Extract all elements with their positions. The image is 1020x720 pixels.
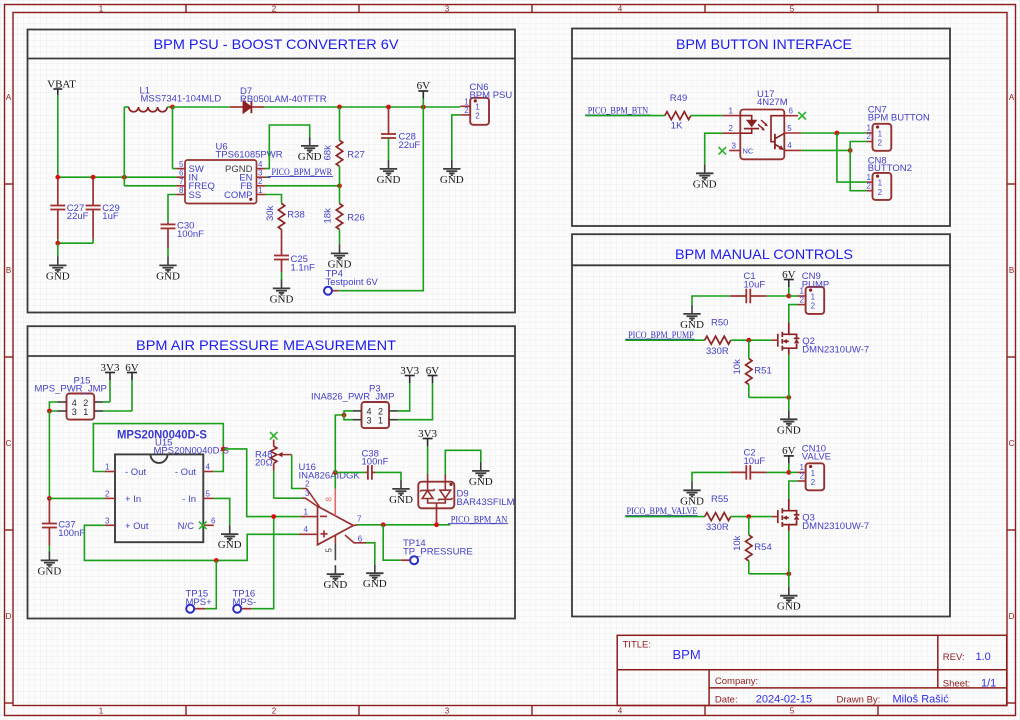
- svg-text:330R: 330R: [706, 346, 729, 357]
- ground pin5: [323, 565, 347, 591]
- svg-text:Date:: Date:: [715, 694, 738, 705]
- svg-text:5: 5: [790, 707, 795, 716]
- capacitor C30 100nF: [161, 221, 205, 257]
- wire +Out bottom rail: [84, 525, 299, 560]
- svg-text:22uF: 22uF: [399, 140, 421, 151]
- wire R51 to source node: [749, 396, 789, 398]
- svg-text:R54: R54: [754, 542, 771, 553]
- node R27 top: [337, 105, 342, 110]
- power flag 3V3 (P3): [400, 365, 419, 383]
- wire label to R49: [585, 115, 665, 117]
- ground C28: [377, 160, 401, 186]
- capacitor C28 22uF: [381, 107, 420, 160]
- pin 5 (ref): [334, 536, 336, 544]
- svg-text:10uF: 10uF: [744, 280, 766, 291]
- power flag 6V (pump): [782, 269, 796, 296]
- svg-text:4: 4: [618, 5, 623, 14]
- svg-text:BUTTON2: BUTTON2: [868, 163, 912, 174]
- wire C27-C29 bottom: [58, 242, 93, 244]
- wire P15 pin2 to 3V3: [103, 401, 110, 403]
- wire CN10 pin2 to drain: [789, 481, 798, 499]
- inductor L1: [124, 86, 221, 112]
- svg-text:RB050LAM-40TFTR: RB050LAM-40TFTR: [240, 94, 327, 105]
- node gate/R51: [746, 338, 751, 343]
- svg-text:- In: - In: [182, 494, 196, 505]
- ground C37: [37, 552, 61, 578]
- svg-text:BPM MANUAL CONTROLS: BPM MANUAL CONTROLS: [675, 246, 853, 262]
- ground C30: [156, 257, 180, 283]
- svg-text:PUMP: PUMP: [802, 279, 829, 290]
- svg-text:1: 1: [83, 407, 88, 417]
- svg-text:R50: R50: [711, 318, 728, 329]
- svg-text:C: C: [6, 439, 12, 448]
- svg-text:TITLE:: TITLE:: [623, 640, 652, 651]
- svg-text:7: 7: [179, 177, 184, 186]
- svg-text:3: 3: [367, 416, 372, 426]
- wire CN6 pin2 to gnd: [452, 115, 470, 160]
- wire -Out to op-amp pin1: [223, 449, 300, 517]
- phototransistor inside U17: [771, 116, 784, 150]
- section box MANUAL: [572, 234, 950, 616]
- node C29: [91, 175, 96, 180]
- svg-text:8: 8: [325, 497, 334, 502]
- wire output: [358, 524, 451, 526]
- wire source down: [788, 355, 790, 398]
- wire SS to C30: [168, 195, 177, 222]
- node source/gnd: [786, 395, 791, 400]
- svg-text:BPM BUTTON: BPM BUTTON: [868, 112, 930, 123]
- node C28 top: [386, 105, 391, 110]
- svg-text:3: 3: [732, 141, 737, 150]
- power flag 6V (P3): [426, 365, 440, 383]
- svg-text:10k: 10k: [732, 359, 743, 375]
- svg-text:TPS61085PWR: TPS61085PWR: [216, 150, 283, 161]
- svg-text:Drawn By:: Drawn By:: [837, 694, 881, 705]
- svg-text:VALVE: VALVE: [802, 452, 831, 463]
- svg-text:Testpoint 6V: Testpoint 6V: [326, 277, 379, 288]
- svg-text:4: 4: [206, 463, 211, 472]
- pin 6 stub: [345, 535, 366, 543]
- ground CN6: [440, 160, 464, 186]
- svg-text:18k: 18k: [323, 208, 334, 224]
- wire COMP to R38: [265, 195, 282, 204]
- wire 6V to TP4: [339, 107, 424, 291]
- node VBAT/C27: [55, 175, 60, 180]
- node pin8/C38: [333, 470, 338, 475]
- wire L1 to D7: [173, 106, 230, 108]
- no-connect X pin6 U17: [798, 112, 806, 120]
- svg-text:6: 6: [211, 516, 216, 525]
- jumper P15 MPS_PWR_JMP: [35, 376, 107, 420]
- wire L1 left riser to FREQ: [123, 107, 125, 186]
- wire pin4 to node: [801, 149, 850, 151]
- svg-text:3: 3: [305, 489, 310, 498]
- svg-text:R49: R49: [670, 93, 687, 104]
- svg-text:D: D: [6, 612, 12, 621]
- svg-text:5: 5: [206, 489, 211, 498]
- svg-text:1: 1: [878, 129, 883, 138]
- svg-text:C: C: [1009, 439, 1015, 448]
- svg-text:DMN2310UW-7: DMN2310UW-7: [802, 345, 869, 356]
- svg-text:6: 6: [789, 107, 794, 116]
- wire to CN9 pin1: [789, 295, 798, 297]
- node 6V/C1/CN9: [786, 294, 791, 299]
- testpoint TP14 TP_PRESSURE: [401, 538, 473, 564]
- node P15: [47, 409, 52, 414]
- svg-text:2: 2: [272, 707, 277, 716]
- capacitor C29: [86, 178, 120, 243]
- IC U6 TPS61085PWR: [177, 142, 283, 204]
- capacitor C1 10uF: [730, 271, 789, 303]
- wire label to R55: [625, 516, 704, 518]
- capacitor C38 100nF: [335, 448, 388, 479]
- wire to CN10 pin1: [789, 471, 798, 473]
- ground PGND: [298, 137, 322, 163]
- svg-text:3: 3: [445, 5, 450, 14]
- svg-text:1: 1: [811, 469, 816, 478]
- svg-text:- Out: - Out: [175, 467, 196, 478]
- svg-text:5: 5: [787, 124, 792, 133]
- wire CN7 pin2 riser CN8 pin2: [850, 142, 867, 191]
- svg-text:1/1: 1/1: [981, 678, 996, 690]
- wire P15 down to C37: [48, 411, 50, 498]
- trimmer R48 20R: [255, 432, 292, 498]
- svg-text:TP_PRESSURE: TP_PRESSURE: [403, 547, 473, 558]
- resistor R51 10k: [732, 340, 772, 397]
- svg-text:Sheet:: Sheet:: [943, 679, 970, 690]
- transistor Q2 DMN2310UW-7: [772, 323, 869, 356]
- wire U17 pin2 to gnd: [705, 133, 723, 164]
- svg-text:3: 3: [105, 516, 110, 525]
- svg-text:1: 1: [105, 463, 110, 472]
- svg-text:A: A: [6, 93, 12, 102]
- ground C2: [680, 472, 730, 507]
- svg-text:R51: R51: [754, 366, 771, 377]
- svg-text:2: 2: [305, 479, 310, 488]
- svg-text:BPM PSU: BPM PSU: [470, 90, 513, 101]
- wire node to gnd valve: [788, 574, 790, 587]
- svg-text:2: 2: [811, 478, 816, 487]
- svg-text:3: 3: [445, 707, 450, 716]
- svg-text:2: 2: [272, 5, 277, 14]
- svg-text:INA826_PWR_JMP: INA826_PWR_JMP: [311, 392, 394, 403]
- svg-text:5: 5: [325, 548, 334, 553]
- wire pin8 up: [334, 472, 336, 488]
- node 6V tap: [421, 105, 426, 110]
- wire to TP14: [383, 525, 401, 560]
- connector CN10 VALVE: [798, 444, 832, 491]
- svg-text:2: 2: [800, 472, 805, 481]
- svg-text:30k: 30k: [265, 205, 276, 221]
- svg-text:10uF: 10uF: [744, 456, 766, 467]
- node source/gnd valve: [786, 571, 791, 576]
- node TP15: [214, 558, 219, 563]
- wire R38 to C25: [281, 230, 283, 256]
- wire node to gnd: [788, 397, 790, 410]
- pin 8 (V+): [334, 489, 336, 516]
- wire R49 to U17: [691, 115, 723, 117]
- svg-text:R27: R27: [347, 150, 364, 161]
- svg-text:2: 2: [464, 106, 469, 115]
- svg-text:BPM AIR PRESSURE MEASUREMENT: BPM AIR PRESSURE MEASUREMENT: [136, 337, 396, 353]
- wire riser to CN8 pin1: [837, 133, 867, 182]
- transistor Q3 DMN2310UW-7: [772, 499, 869, 532]
- wire R48 bottom to pin3: [274, 497, 302, 499]
- wire D9 right to gnd: [445, 450, 481, 474]
- net label PICO_BPM_PWR: [265, 168, 333, 178]
- LED inside U17: [740, 116, 768, 134]
- svg-text:1: 1: [99, 707, 104, 716]
- node 6V/C2/CN10: [786, 470, 791, 475]
- capacitor C25 1.1nF: [274, 254, 315, 280]
- node pin4/CN7-2/CN8-2: [848, 148, 853, 153]
- net label PICO_BPM_VALVE: [625, 507, 697, 517]
- resistor R49 1K: [665, 93, 691, 131]
- svg-text:BPM BUTTON INTERFACE: BPM BUTTON INTERFACE: [676, 36, 852, 52]
- svg-text:2: 2: [878, 188, 883, 197]
- svg-text:1: 1: [811, 293, 816, 302]
- svg-text:68k: 68k: [323, 145, 334, 161]
- node output/D9: [434, 522, 439, 527]
- svg-text:R38: R38: [287, 210, 304, 221]
- svg-text:MSS7341-104MLD: MSS7341-104MLD: [141, 94, 222, 105]
- ground R26: [328, 245, 352, 271]
- optocoupler U17 4N27M: [719, 89, 806, 159]
- node C27 gnd: [55, 241, 60, 246]
- svg-text:2: 2: [475, 111, 480, 120]
- ground Q2: [777, 410, 801, 436]
- wire FB: [265, 185, 340, 187]
- svg-text:B: B: [1009, 266, 1014, 275]
- svg-text:R55: R55: [711, 494, 728, 505]
- jumper P3 INA826_PWR_JMP: [311, 384, 398, 429]
- connector CN8 BUTTON2: [867, 155, 912, 200]
- svg-text:7: 7: [357, 515, 362, 524]
- svg-text:1uF: 1uF: [102, 211, 119, 222]
- wire P3 left pins: [344, 411, 353, 420]
- net label PICO_BPM_BTN: [585, 107, 651, 117]
- wire C38 to gnd: [375, 472, 401, 480]
- op-amp U16 INA826AIDGK: [299, 462, 367, 560]
- svg-text:NC: NC: [743, 146, 754, 155]
- testpoint TP4: [324, 269, 378, 295]
- wire to CN6: [460, 105, 470, 107]
- diode D7: [230, 86, 327, 113]
- section box AIR: [28, 326, 516, 618]
- svg-text:1: 1: [99, 5, 104, 14]
- pin 7 output stub: [353, 524, 357, 527]
- svg-text:3: 3: [72, 407, 77, 417]
- testpoint TP15 MPS+: [186, 560, 217, 612]
- svg-text:2: 2: [800, 295, 805, 304]
- svg-text:2: 2: [105, 489, 110, 498]
- svg-text:SS: SS: [189, 190, 202, 201]
- ground U17: [693, 164, 717, 190]
- wire CN9 pin2 to drain: [789, 305, 798, 323]
- capacitor C2 10uF: [730, 448, 789, 480]
- svg-text:MPS-: MPS-: [233, 597, 257, 608]
- svg-text:1: 1: [878, 179, 883, 188]
- capacitor C27: [50, 178, 88, 243]
- wire pin6 down to gnd: [366, 543, 375, 565]
- section box BUTTON: [572, 29, 950, 227]
- svg-text:20Ω: 20Ω: [255, 458, 273, 469]
- wire P3 pin1 to 6V: [398, 383, 433, 420]
- svg-text:A: A: [1009, 93, 1015, 102]
- svg-text:BPM PSU - BOOST CONVERTER 6V: BPM PSU - BOOST CONVERTER 6V: [154, 36, 400, 52]
- ground C27: [46, 257, 70, 283]
- wire pin5 to CN7 pin1: [801, 132, 867, 134]
- ground C1: [680, 296, 730, 331]
- svg-text:Miloš Rašić: Miloš Rašić: [893, 693, 950, 705]
- node -Out branch: [221, 447, 226, 452]
- node L1/FREQ: [122, 175, 127, 180]
- node output/TP14: [381, 522, 386, 527]
- svg-text:BPM: BPM: [673, 647, 701, 662]
- wire R54 to source node: [749, 573, 789, 575]
- svg-text:1.1nF: 1.1nF: [291, 263, 315, 274]
- svg-text:1.0: 1.0: [976, 651, 991, 663]
- wire VBAT down: [57, 95, 59, 177]
- svg-text:4N27M: 4N27M: [757, 97, 788, 108]
- node gate/R54: [746, 514, 751, 519]
- node P3 join: [342, 413, 347, 418]
- svg-text:COMP: COMP: [224, 190, 253, 201]
- connector CN6 BPM PSU: [464, 82, 512, 125]
- title block: [617, 635, 1007, 705]
- svg-text:10k: 10k: [732, 535, 743, 551]
- wire R55 to gate: [731, 516, 772, 518]
- power flag 6V (valve): [782, 445, 796, 472]
- resistor R50 330R: [705, 318, 731, 357]
- svg-text:2: 2: [258, 177, 263, 186]
- svg-text:N/C: N/C: [178, 521, 195, 532]
- svg-text:B: B: [6, 266, 11, 275]
- svg-text:100nF: 100nF: [362, 457, 389, 468]
- svg-text:Company:: Company:: [715, 676, 758, 687]
- svg-text:2: 2: [867, 132, 872, 141]
- power flag VBAT: [47, 79, 76, 96]
- power flag 3V3 (P15): [101, 362, 120, 402]
- wire PGND to gnd: [265, 125, 310, 169]
- svg-text:2: 2: [729, 124, 734, 133]
- svg-text:4: 4: [618, 707, 623, 716]
- wire P15 left pins join: [49, 402, 57, 411]
- wire label to R50: [625, 339, 704, 341]
- wire P3 pin2 to 3V3: [398, 383, 410, 411]
- connector CN9 PUMP: [798, 271, 830, 314]
- svg-text:BAR43SFILM: BAR43SFILM: [457, 497, 515, 508]
- svg-text:MPS+: MPS+: [186, 597, 213, 608]
- node pin5/CN8 riser: [835, 131, 840, 136]
- diode D9 BAR43SFILM: [418, 474, 514, 525]
- node -IN/TP16/R48: [271, 514, 276, 519]
- svg-text:100nF: 100nF: [58, 528, 85, 539]
- ground C25: [270, 280, 294, 306]
- wire source down valve: [788, 531, 790, 574]
- ground Q3: [777, 587, 801, 613]
- svg-text:4: 4: [304, 525, 309, 534]
- ground pin6: [363, 564, 387, 590]
- no-connect X pin6: [199, 522, 207, 530]
- net label PICO_BPM_PUMP: [625, 331, 694, 341]
- svg-text:- Out: - Out: [125, 467, 146, 478]
- svg-text:330R: 330R: [706, 522, 729, 533]
- svg-text:MPS20N0040D-S: MPS20N0040D-S: [154, 445, 230, 456]
- wire R50 to gate: [731, 339, 772, 341]
- power flag 6V (P15): [125, 362, 139, 411]
- svg-text:2: 2: [811, 302, 816, 311]
- resistor R54 10k: [732, 517, 772, 574]
- testpoint TP16 MPS-: [233, 517, 274, 613]
- svg-text:2024-02-15: 2024-02-15: [756, 693, 812, 705]
- wire P15 pin1 to 6V: [103, 410, 132, 412]
- node L1/D7 SW: [170, 105, 175, 110]
- svg-text:2: 2: [867, 181, 872, 190]
- ground pin5 U15: [218, 525, 242, 551]
- svg-text:8: 8: [179, 186, 184, 195]
- ground C38: [389, 480, 413, 506]
- svg-text:22uF: 22uF: [67, 211, 89, 222]
- wire 6V rail: [264, 106, 460, 108]
- svg-text:1: 1: [729, 106, 734, 115]
- resistor R26 18k: [323, 186, 365, 245]
- svg-text:5: 5: [790, 5, 795, 14]
- wire R48 wiper to pin2: [292, 455, 302, 489]
- svg-text:REV:: REV:: [943, 652, 965, 663]
- svg-text:1: 1: [304, 507, 309, 516]
- wire -Out left loop: [93, 424, 223, 472]
- sensor U15 MPS20N0040D-S: [105, 428, 229, 543]
- svg-text:+ In: + In: [125, 494, 141, 505]
- node FB/R27/R26: [337, 183, 342, 188]
- wire pin8 to P3: [335, 415, 344, 472]
- node C37/+In: [47, 496, 52, 501]
- wire SW riser: [172, 107, 174, 169]
- power flag 6V: [417, 80, 431, 107]
- wire to MPS +In: [49, 497, 104, 499]
- wire IN rail: [58, 176, 177, 178]
- net label PICO_BPM_AN: [448, 515, 508, 525]
- connector CN7 BPM BUTTON: [867, 105, 930, 151]
- svg-text:R26: R26: [347, 213, 364, 224]
- svg-text:1K: 1K: [671, 120, 683, 131]
- power flag 3V3 (D9): [418, 428, 437, 474]
- ground D9: [469, 462, 493, 488]
- section box PSU: [28, 30, 516, 313]
- svg-text:DMN2310UW-7: DMN2310UW-7: [802, 521, 869, 532]
- resistor R55 330R: [705, 494, 731, 533]
- resistor R38 30k: [265, 204, 305, 230]
- svg-text:2: 2: [878, 139, 883, 148]
- wire -In pin5 to gnd: [214, 498, 230, 525]
- resistor R27 68k: [323, 107, 365, 186]
- capacitor C37 100nF: [42, 499, 85, 552]
- wire to gnd: [57, 243, 59, 256]
- svg-text:MPS_PWR_JMP: MPS_PWR_JMP: [35, 384, 107, 395]
- no-connect X pin3 U17: [719, 147, 727, 155]
- svg-text:4: 4: [787, 141, 792, 150]
- svg-text:D: D: [1009, 612, 1015, 621]
- svg-text:1: 1: [378, 416, 383, 426]
- svg-text:1: 1: [258, 186, 263, 195]
- svg-text:+ Out: + Out: [125, 521, 149, 532]
- svg-text:100nF: 100nF: [177, 229, 204, 240]
